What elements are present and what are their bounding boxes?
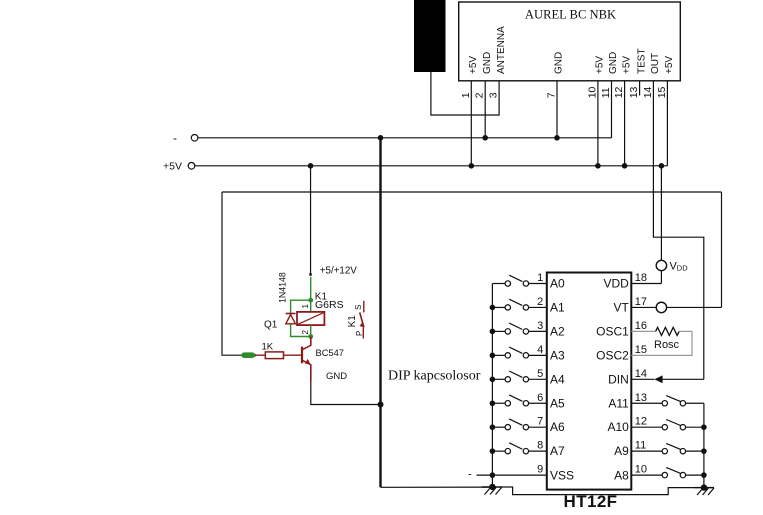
svg-text:A4: A4 <box>550 372 565 386</box>
svg-text:9: 9 <box>537 464 543 476</box>
junction pin12/+5V <box>622 163 628 169</box>
svg-text:1N4148: 1N4148 <box>277 272 287 303</box>
svg-text:-: - <box>173 131 177 145</box>
svg-text:1K: 1K <box>262 341 274 352</box>
pin 4 A3 with DIP switch <box>490 344 565 363</box>
svg-text:BC547: BC547 <box>316 348 344 358</box>
pin 17 VT <box>613 296 656 315</box>
junction bus/relay-gnd <box>378 402 384 408</box>
wire bus bottom to left ground <box>381 486 493 488</box>
junction relay top (green) <box>308 298 313 303</box>
svg-text:10: 10 <box>635 464 647 476</box>
pin 13 A11 with DIP switch <box>608 392 704 411</box>
svg-text:A5: A5 <box>550 396 565 410</box>
junction pin7/minus <box>554 135 560 141</box>
Vdd terminal circle <box>656 163 688 284</box>
svg-text:A9: A9 <box>614 444 629 458</box>
svg-text:A6: A6 <box>550 420 565 434</box>
svg-text:GND: GND <box>482 52 493 74</box>
wire OUT pin14 down and over to DIN riser <box>653 96 703 379</box>
svg-text:13: 13 <box>628 86 640 98</box>
pin 11 (GND) of AUREL <box>600 52 619 99</box>
resistor Rosc <box>631 327 692 355</box>
wire left drop to base resistor <box>222 192 242 355</box>
svg-text:DIN: DIN <box>608 372 629 386</box>
svg-text:GND: GND <box>554 52 565 74</box>
svg-text:+5V: +5V <box>468 56 479 74</box>
terminal circle net minus <box>173 131 198 145</box>
svg-text:A2: A2 <box>550 324 565 338</box>
pin 1 A0 with DIP switch <box>492 272 565 291</box>
pin 2 A1 with DIP switch <box>490 296 565 315</box>
svg-text:+5/+12V: +5/+12V <box>320 265 358 276</box>
pin 10 A8 with DIP switch <box>614 464 707 483</box>
svg-text:OUT: OUT <box>650 53 661 74</box>
IC U1 HT12F box <box>547 273 632 490</box>
svg-text:2: 2 <box>537 296 543 308</box>
pin 15 (+5V) of AUREL <box>656 56 675 99</box>
svg-text:12: 12 <box>613 86 625 98</box>
svg-text:DD: DD <box>677 264 688 273</box>
pin 15 OSC2 <box>596 344 647 363</box>
diode D1 1N4148 <box>286 314 296 324</box>
svg-text:14: 14 <box>642 86 654 98</box>
svg-text:A8: A8 <box>614 469 629 483</box>
net minus rail <box>198 137 612 139</box>
right DIP rail <box>703 403 705 487</box>
wire pin15 to +5V rail <box>666 96 668 166</box>
pin 3 A2 with DIP switch <box>490 320 565 339</box>
svg-text:OSC2: OSC2 <box>596 348 629 362</box>
junction relay bottom (green) <box>308 334 313 339</box>
svg-text:VT: VT <box>613 300 629 314</box>
VT terminal circle <box>656 302 721 312</box>
svg-text:3: 3 <box>488 92 500 98</box>
pin 12 A10 with DIP switch <box>607 416 706 435</box>
svg-text:A3: A3 <box>550 348 565 362</box>
pin 9 VSS <box>468 464 574 483</box>
svg-text:TEST: TEST <box>636 48 647 74</box>
ground symbol left <box>482 484 502 495</box>
relay contact switch K1 <box>360 301 365 339</box>
pin 18 VDD <box>603 272 661 291</box>
svg-text:16: 16 <box>635 320 647 332</box>
ground bus vertical <box>379 138 381 488</box>
svg-text:P: P <box>355 331 364 336</box>
svg-text:15: 15 <box>656 86 668 98</box>
svg-text:8: 8 <box>537 440 543 452</box>
svg-text:+5V: +5V <box>664 56 675 74</box>
svg-text:4: 4 <box>537 344 543 356</box>
transistor Q1 BC547 <box>302 337 311 381</box>
pin 8 A7 with DIP switch <box>490 440 565 459</box>
pin 7 (GND) of AUREL <box>546 52 565 99</box>
svg-text:1: 1 <box>460 92 472 98</box>
svg-text:A11: A11 <box>608 396 629 410</box>
wire +5V distribution horizontal <box>222 191 722 193</box>
svg-text:GND: GND <box>326 371 347 382</box>
junction pin10/+5V <box>595 163 601 169</box>
wire antenna to pin 3 <box>431 72 499 115</box>
wire relay coil supply (green) <box>310 277 312 300</box>
pin 3 (ANTENNA) of AUREL <box>488 26 507 98</box>
pin 7 A6 with DIP switch <box>490 416 565 435</box>
resistor R1 1K <box>265 352 283 359</box>
svg-text:VSS: VSS <box>550 469 574 483</box>
wire VT riser <box>721 192 723 307</box>
pin 14 DIN with arrow <box>608 368 704 387</box>
junction pin1/+5V <box>469 163 475 169</box>
pin 10 (+5V) of AUREL <box>586 56 605 99</box>
svg-text:K1: K1 <box>347 315 358 328</box>
svg-text:3: 3 <box>537 320 543 332</box>
svg-text:1: 1 <box>301 304 310 309</box>
wire relay pin2 stub (green) <box>310 325 312 336</box>
svg-text:2: 2 <box>301 330 310 335</box>
pin 6 A5 with DIP switch <box>490 392 565 411</box>
wire pin10 to +5V rail <box>597 96 599 166</box>
pin 13 (TEST) of AUREL, unconnected stub <box>628 48 647 98</box>
wire +5V riser to supply line <box>310 166 312 274</box>
wire pin7 to minus rail <box>556 96 558 138</box>
svg-text:6: 6 <box>537 392 543 404</box>
svg-text:7: 7 <box>546 92 558 98</box>
svg-text:11: 11 <box>600 87 612 98</box>
svg-text:A7: A7 <box>550 444 565 458</box>
svg-text:13: 13 <box>635 392 647 404</box>
svg-text:S: S <box>354 305 363 310</box>
pin 12 (+5V) of AUREL <box>613 56 632 99</box>
svg-text:G6RS: G6RS <box>315 299 344 311</box>
wire tag to resistor (red) <box>255 354 265 356</box>
svg-text:17: 17 <box>635 296 647 308</box>
relay K1 G6RS coil box <box>297 312 324 325</box>
svg-text:+5V: +5V <box>595 56 606 74</box>
wire pin11 to minus rail <box>611 96 613 138</box>
svg-text:10: 10 <box>586 86 598 98</box>
svg-text:-: - <box>468 468 472 480</box>
svg-text:A0: A0 <box>550 277 565 291</box>
pin 16 OSC1 <box>596 320 655 339</box>
pin 5 A4 with DIP switch <box>490 368 565 387</box>
wire gnd under IC <box>502 487 695 495</box>
pin 1 (+5V) of AUREL <box>460 56 479 99</box>
wire pin2 to minus rail <box>484 96 486 138</box>
svg-text:1: 1 <box>537 272 543 284</box>
svg-text:2: 2 <box>474 92 486 98</box>
svg-text:14: 14 <box>635 368 647 380</box>
svg-text:A10: A10 <box>607 420 629 434</box>
svg-text:AUREL BC NBK: AUREL BC NBK <box>525 8 616 22</box>
pin 14 (OUT) of AUREL <box>642 53 661 98</box>
wire pin1 to +5V rail <box>470 96 472 166</box>
svg-text:VDD: VDD <box>603 277 629 291</box>
svg-text:A1: A1 <box>550 300 565 314</box>
wire resistor to base (red) <box>284 354 302 356</box>
svg-text:7: 7 <box>537 416 543 428</box>
junction bus/minus rail <box>378 135 384 141</box>
pin 2 (GND) of AUREL <box>474 52 493 99</box>
svg-text:OSC1: OSC1 <box>596 324 629 338</box>
junction riser/+5V rail <box>308 163 314 169</box>
left DIP rail <box>491 284 493 487</box>
ground symbol right <box>695 484 715 495</box>
junction pin2/minus <box>482 135 488 141</box>
net +5V rail <box>195 165 668 167</box>
module U2 AUREL BC NBK box <box>459 2 681 81</box>
svg-text:GND: GND <box>608 52 619 74</box>
wire diode parallel loop (green) <box>291 300 311 313</box>
svg-text:Q1: Q1 <box>264 319 278 330</box>
antenna <box>414 0 446 72</box>
pin 11 A9 with DIP switch <box>614 440 707 459</box>
svg-text:ANTENNA: ANTENNA <box>496 26 507 74</box>
terminal circle net +5V <box>163 161 195 173</box>
wire pin12 to +5V rail <box>624 96 626 166</box>
svg-text:12: 12 <box>635 416 647 428</box>
svg-text:18: 18 <box>635 272 647 284</box>
wire emitter to gnd bus <box>311 381 381 405</box>
svg-text:11: 11 <box>635 440 646 452</box>
svg-text:15: 15 <box>635 344 647 356</box>
svg-text:DIP kapcsolosor: DIP kapcsolosor <box>388 369 481 384</box>
wire relay pin1 stub (green) <box>310 300 312 312</box>
green tag on base wire <box>241 352 257 358</box>
svg-text:Rosc: Rosc <box>654 339 680 351</box>
svg-text:+5V: +5V <box>621 56 632 74</box>
svg-text:5: 5 <box>537 368 543 380</box>
svg-text:+5V: +5V <box>163 161 182 173</box>
